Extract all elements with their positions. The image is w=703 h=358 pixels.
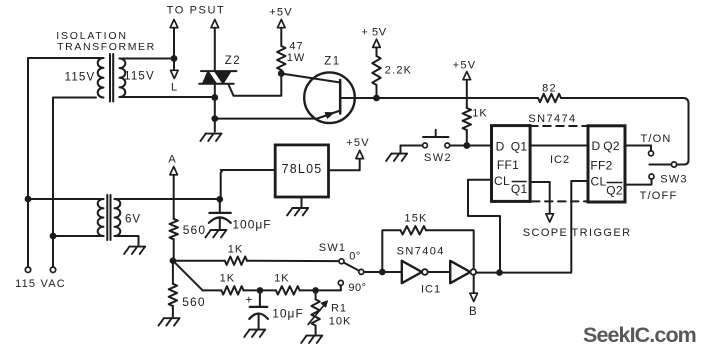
- svg-text:SW2: SW2: [424, 152, 452, 164]
- svg-text:Q1: Q1: [511, 139, 528, 153]
- svg-text:1W: 1W: [287, 52, 306, 64]
- svg-text:A: A: [168, 154, 176, 166]
- svg-text:SN7404: SN7404: [397, 246, 445, 258]
- svg-text:D: D: [496, 139, 505, 153]
- svg-text:D: D: [591, 139, 600, 153]
- svg-text:15K: 15K: [404, 213, 427, 225]
- svg-text:T/ON: T/ON: [640, 133, 671, 145]
- svg-text:Q2: Q2: [606, 184, 623, 198]
- svg-text:TO PSUT: TO PSUT: [167, 5, 226, 17]
- svg-text:10μF: 10μF: [272, 307, 304, 321]
- svg-text:CL: CL: [591, 175, 607, 189]
- svg-text:6V: 6V: [125, 214, 141, 226]
- svg-text:+: +: [245, 292, 252, 306]
- svg-text:115V: 115V: [65, 72, 96, 84]
- svg-text:FF1: FF1: [497, 158, 519, 172]
- svg-text:1K: 1K: [472, 108, 487, 120]
- svg-text:82: 82: [542, 83, 557, 95]
- svg-text:1K: 1K: [274, 273, 289, 285]
- svg-text:115 VAC: 115 VAC: [15, 278, 66, 290]
- svg-text:SW3: SW3: [660, 174, 687, 186]
- svg-text:TRIGGER: TRIGGER: [572, 227, 632, 239]
- svg-text:+ 5V: + 5V: [361, 27, 386, 39]
- svg-text:SCOPE: SCOPE: [523, 227, 569, 239]
- svg-text:L: L: [171, 82, 177, 94]
- svg-text:SW1: SW1: [319, 242, 346, 254]
- svg-text:+5V: +5V: [269, 7, 292, 19]
- svg-text:0°: 0°: [349, 251, 361, 263]
- svg-text:2.2K: 2.2K: [385, 65, 412, 77]
- svg-text:1K: 1K: [220, 273, 235, 285]
- svg-text:CL: CL: [494, 174, 510, 188]
- svg-text:IC2: IC2: [550, 154, 570, 166]
- svg-text:TRANSFORMER: TRANSFORMER: [57, 41, 156, 53]
- svg-text:FF2: FF2: [590, 159, 612, 173]
- svg-text:560: 560: [182, 295, 206, 309]
- svg-text:T/OFF: T/OFF: [640, 190, 678, 202]
- svg-text:Q1: Q1: [511, 182, 528, 196]
- svg-text:IC1: IC1: [421, 284, 441, 296]
- svg-text:10K: 10K: [329, 316, 352, 328]
- svg-text:90°: 90°: [348, 282, 366, 294]
- svg-text:+5V: +5V: [453, 60, 476, 72]
- svg-text:Z2: Z2: [225, 55, 241, 67]
- svg-text:Z1: Z1: [324, 56, 340, 68]
- svg-text:Q2: Q2: [603, 139, 620, 153]
- svg-text:SN7474: SN7474: [528, 113, 576, 125]
- svg-text:78L05: 78L05: [282, 162, 323, 176]
- svg-text:560: 560: [183, 223, 207, 237]
- svg-text:B: B: [469, 306, 477, 318]
- svg-text:100μF: 100μF: [232, 218, 271, 232]
- svg-text:1K: 1K: [228, 244, 243, 256]
- svg-text:47: 47: [289, 41, 303, 53]
- svg-text:SeekIC.com: SeekIC.com: [583, 323, 696, 347]
- svg-text:+5V: +5V: [346, 137, 369, 149]
- svg-text:R1: R1: [331, 303, 347, 315]
- svg-text:115V: 115V: [124, 71, 155, 83]
